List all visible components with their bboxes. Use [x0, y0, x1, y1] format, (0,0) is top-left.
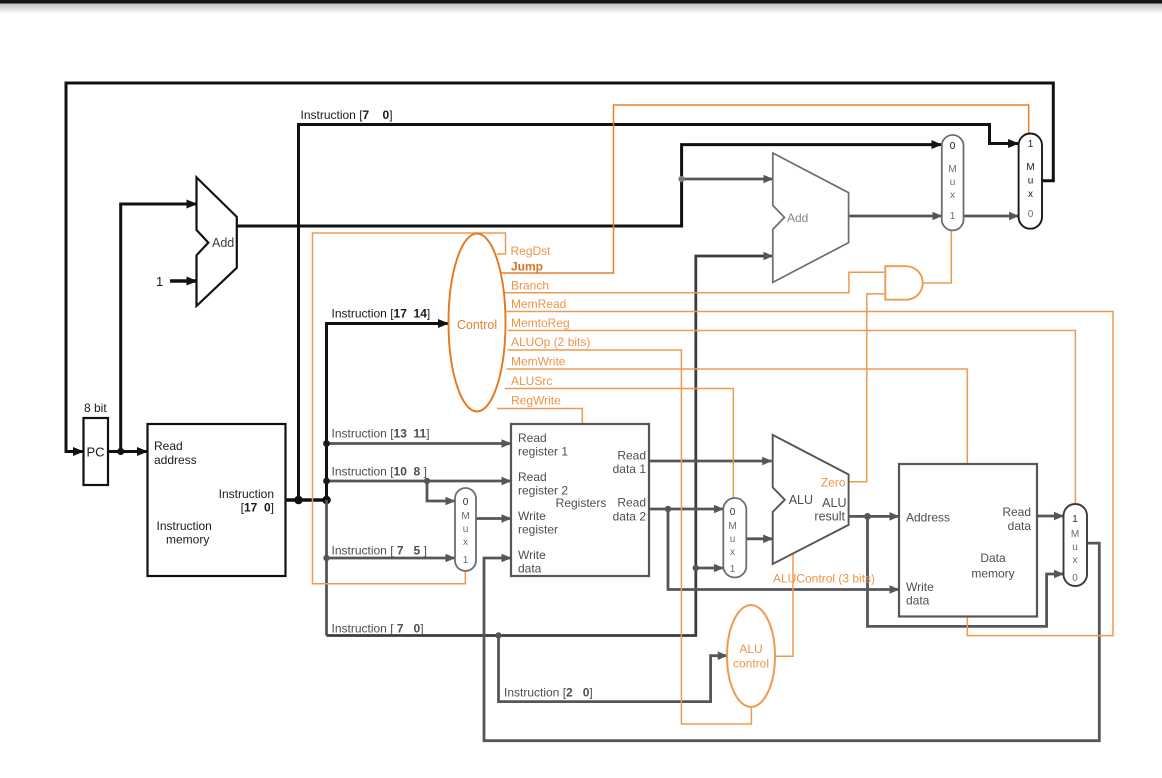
wire: constant 1 into Add [170, 279, 197, 282]
svg-text:Instruction [2 0]: Instruction [2 0] [504, 686, 593, 700]
svg-text:address: address [154, 453, 197, 467]
svg-text:data 2: data 2 [613, 510, 647, 524]
svg-text:Read: Read [154, 439, 183, 453]
svg-text:data: data [518, 562, 542, 576]
wire: RegDst signal [313, 233, 506, 584]
svg-text:register 1: register 1 [518, 445, 568, 459]
svg-text:MemtoReg: MemtoReg [511, 316, 570, 330]
node: bus junction 1 [294, 496, 303, 505]
control unit ellipse [449, 234, 506, 412]
node: PC+1 junction [678, 176, 684, 182]
instruction memory [148, 424, 286, 576]
svg-text:Instruction [ 7 5 ]: Instruction [ 7 5 ] [332, 544, 427, 558]
wire: AND gate output to branch mux select [923, 230, 952, 283]
svg-text:M: M [948, 164, 956, 175]
svg-text:Instruction [17 14]: Instruction [17 14] [332, 307, 431, 321]
node: junction PC output [117, 448, 124, 455]
wire: PC+1 to branch adder top input [682, 178, 773, 181]
svg-text:ALU: ALU [789, 493, 813, 507]
mux RegDst (0 Mux 1) [455, 488, 476, 571]
registers block [511, 424, 649, 576]
adder PC+1 [197, 177, 237, 306]
mux MemtoReg (1 Mux 0) [1064, 504, 1088, 586]
wire: Branch signal to AND gate [505, 272, 886, 292]
wire: Instruction [7 0] sign extend path up to branch adder [327, 256, 773, 636]
svg-text:M: M [1026, 162, 1034, 173]
wire: Zero flag to AND gate [849, 294, 886, 482]
svg-text:Data: Data [980, 551, 1006, 565]
wire: ALUSrc mux output to ALU [746, 537, 772, 540]
svg-text:result: result [814, 510, 845, 524]
svg-text:1: 1 [1072, 514, 1078, 525]
svg-text:ALU: ALU [822, 496, 846, 510]
svg-text:0: 0 [463, 497, 469, 508]
mux MemtoReg text [1071, 514, 1079, 584]
svg-text:control: control [733, 657, 769, 671]
wire: instruction bus vertical lower part [325, 500, 328, 636]
svg-text:1: 1 [156, 274, 163, 289]
svg-text:u: u [1072, 542, 1078, 553]
wire: MemtoReg signal to final mux select [508, 331, 1076, 505]
svg-text:register: register [518, 523, 558, 537]
node: tap 13-11 [323, 440, 330, 447]
wire: read data 2 to data memory write data [668, 509, 899, 590]
svg-text:8 bit: 8 bit [84, 401, 107, 415]
svg-text:Read: Read [518, 431, 547, 445]
svg-text:x: x [730, 547, 735, 558]
svg-text:Branch: Branch [511, 279, 549, 293]
svg-text:x: x [1028, 189, 1033, 200]
node: read data 2 junction [665, 506, 671, 512]
node: junction 10-8 branch [424, 478, 430, 484]
mux jump text [1026, 139, 1034, 220]
svg-text:Jump: Jump [511, 260, 543, 274]
node: tap 7-0 to 2-0 [495, 632, 501, 638]
svg-text:ALU: ALU [739, 642, 762, 656]
svg-text:ALUOp (2 bits): ALUOp (2 bits) [511, 335, 590, 349]
wire: Instruction [7 0] jump address to top-right mux input 1 [299, 125, 1019, 501]
svg-text:memory: memory [166, 533, 209, 547]
svg-text:Instruction [ 7 0]: Instruction [ 7 0] [332, 622, 424, 636]
wire: Instruction [10 8] to read register 2 [327, 480, 512, 483]
adder branch [773, 153, 849, 282]
wire: Add (PC+1) output to branch mux input 0 [237, 145, 942, 226]
mux branch (0 Mux 1) [942, 135, 964, 230]
ALU U1 [773, 435, 849, 564]
wire: branch mux output to jump mux input 0 [964, 215, 1019, 218]
node: bus junction 2 [322, 496, 331, 505]
wire: PC value up to Add input [121, 204, 197, 452]
wire: MemRead signal to data memory bottom [507, 312, 1114, 636]
svg-text:Read: Read [1002, 505, 1031, 519]
svg-text:1: 1 [730, 564, 736, 575]
svg-text:x: x [1073, 555, 1078, 566]
svg-text:x: x [463, 537, 468, 548]
svg-text:Write: Write [518, 509, 546, 523]
svg-text:1: 1 [950, 211, 956, 222]
svg-text:0: 0 [1072, 573, 1078, 584]
wire: immediate into ALUSrc mux input 1 [696, 567, 724, 570]
svg-text:u: u [463, 524, 469, 535]
svg-text:Zero: Zero [821, 476, 846, 490]
wire: Instruction [2 0] to ALU control [499, 636, 728, 702]
svg-text:u: u [1028, 176, 1034, 187]
svg-text:u: u [730, 534, 736, 545]
svg-text:data 1: data 1 [613, 462, 647, 476]
svg-text:Instruction [10 8 ]: Instruction [10 8 ] [332, 465, 427, 479]
wire: final mux output feedback to registers write data [484, 543, 1099, 741]
svg-text:MemRead: MemRead [511, 297, 566, 311]
svg-text:M: M [728, 521, 736, 532]
svg-text:Read: Read [518, 470, 547, 484]
wire: Instruction [17 14] to Control [327, 324, 449, 501]
mux branch text [948, 141, 956, 222]
wire: RegWrite signal to registers [497, 409, 582, 425]
wire: ALUOp signal to ALU control [508, 350, 752, 724]
svg-text:Address: Address [906, 511, 950, 525]
svg-text:0: 0 [950, 141, 956, 152]
wire: ALUSrc signal to ALUSrc mux select [505, 389, 734, 499]
svg-text:Instruction [13 11]: Instruction [13 11] [332, 427, 430, 441]
orange labels [457, 244, 875, 671]
wire: Jump signal to jump mux select [501, 105, 1029, 273]
node: ALU result junction [864, 513, 871, 520]
wire: read data 1 to ALU [649, 460, 772, 463]
wire: PC feedback loop from jump mux output around top to PC input [66, 83, 1053, 452]
svg-text:Write: Write [518, 548, 546, 562]
svg-text:RegWrite: RegWrite [511, 394, 561, 408]
wire: Instruction [13 11] to read register 1 [327, 442, 512, 445]
svg-text:Read: Read [617, 449, 646, 463]
svg-text:Instruction [7 0]: Instruction [7 0] [301, 108, 393, 122]
wire: ALU result bypass to final mux input 0 [868, 516, 1064, 626]
data memory block [899, 464, 1037, 617]
PC register [84, 418, 109, 485]
node: tap 7-5 [323, 555, 329, 561]
wire: ALU control output to ALU [775, 552, 793, 656]
mux ALUSrc text [728, 507, 736, 575]
wire: data memory read data to final mux input 1 [1037, 515, 1064, 518]
svg-text:[17 0]: [17 0] [241, 501, 274, 515]
svg-text:Registers: Registers [556, 496, 607, 510]
svg-text:M: M [1071, 529, 1079, 540]
wire: RegDst mux output to write register [476, 517, 511, 520]
svg-text:0: 0 [1028, 209, 1034, 220]
wire: branch adder output to branch mux input 1 [849, 215, 942, 218]
svg-text:data: data [1008, 519, 1032, 533]
AND gate [885, 266, 922, 300]
svg-text:MemWrite: MemWrite [511, 355, 566, 369]
wire: ALU result to data memory address [849, 515, 899, 518]
svg-text:Instruction: Instruction [219, 487, 274, 501]
svg-text:ALUControl (3 bits): ALUControl (3 bits) [773, 572, 875, 586]
svg-text:Control: Control [457, 318, 497, 332]
wire: instruction bus from instruction memory [286, 498, 327, 501]
svg-text:x: x [950, 190, 955, 201]
mux jump (1 Mux 0) [1019, 134, 1042, 229]
wire: PC output to instruction memory read address [108, 450, 148, 453]
svg-text:Add: Add [212, 236, 234, 250]
wire: MemWrite signal to data memory top [507, 369, 968, 464]
wire: Instruction [10 8] branch to RegDst mux input 0 [427, 481, 455, 501]
svg-text:PC: PC [87, 445, 105, 460]
mux ALUSrc (0 Mux 1) [723, 498, 746, 578]
svg-text:1: 1 [463, 555, 469, 566]
svg-text:Instruction: Instruction [157, 519, 212, 533]
node: tap 10-8 [323, 478, 330, 485]
svg-text:M: M [461, 511, 469, 522]
svg-text:RegDst: RegDst [511, 244, 552, 258]
top browser bar [0, 0, 1162, 4]
svg-text:u: u [950, 177, 956, 188]
svg-text:0: 0 [730, 507, 736, 518]
svg-text:Read: Read [617, 496, 646, 510]
svg-text:ALUSrc: ALUSrc [511, 374, 552, 388]
ALU control ellipse [727, 605, 775, 707]
svg-text:Add: Add [787, 211, 808, 225]
wire: read data 2 to ALUSrc mux input 0 [649, 508, 723, 511]
svg-text:Write: Write [906, 580, 934, 594]
node: tap immediate to ALUSrc mux [693, 565, 699, 571]
svg-text:1: 1 [1028, 139, 1034, 150]
svg-text:memory: memory [971, 567, 1014, 581]
wire: Instruction [7 5] to RegDst mux input 1 [327, 557, 456, 560]
mux RegDst text [461, 497, 469, 566]
svg-text:data: data [906, 594, 930, 608]
